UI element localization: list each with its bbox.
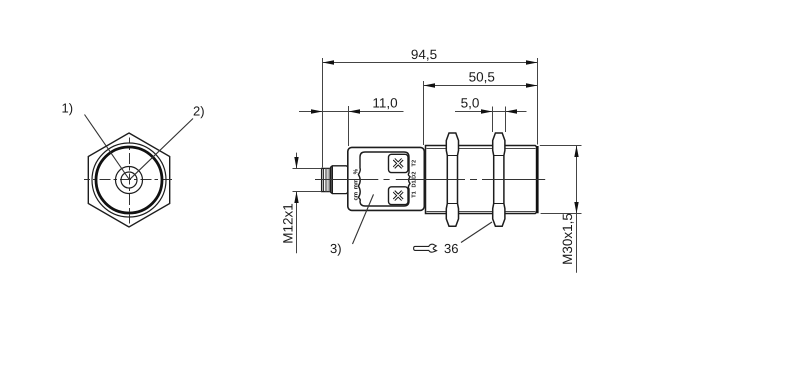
- horizontal centerline: [84, 179, 175, 181]
- wrench icon: [414, 244, 437, 252]
- svg-text:2): 2): [193, 104, 205, 119]
- outer circle (body diameter): [92, 143, 166, 217]
- arrow 94,5 right: [526, 60, 538, 64]
- centerline side view: [315, 179, 545, 181]
- threaded cylinder body M30: [426, 146, 538, 214]
- dim line 94,5: [323, 62, 538, 64]
- M30x1,5 ext line bottom: [541, 213, 582, 215]
- M12x1 dim line top segment: [296, 153, 298, 169]
- svg-text:%: %: [352, 168, 359, 174]
- svg-text:11,0: 11,0: [372, 96, 397, 111]
- housing box: [348, 147, 425, 210]
- ext line 11,0 right: [348, 106, 350, 146]
- connector thread hatch: [322, 168, 324, 191]
- connector thread hatch lines: [325, 168, 329, 191]
- leader line 1): [85, 115, 130, 180]
- M30x1,5 arrow top (pointing up): [574, 146, 578, 158]
- svg-text:1): 1): [62, 101, 74, 116]
- svg-text:50,5: 50,5: [469, 70, 495, 85]
- arrow 11,0 right (outside): [349, 109, 361, 113]
- ext line 94,5 left: [322, 58, 324, 168]
- arrow 50,5 right: [526, 83, 538, 87]
- M30x1,5 arrow bottom (pointing down): [574, 202, 578, 214]
- X mark bottom button: [394, 191, 402, 199]
- ext line 94,5 right / 50,5 right: [537, 58, 539, 145]
- dim line 5,0: [455, 111, 527, 113]
- inner circle: [121, 172, 137, 188]
- middle circle: [116, 167, 143, 194]
- X mark top button: [394, 159, 402, 167]
- connector collar step line: [331, 166, 333, 194]
- svg-text:cm: cm: [353, 192, 359, 201]
- svg-text:94,5: 94,5: [411, 47, 437, 62]
- svg-text:5,0: 5,0: [461, 96, 480, 111]
- M12x1 ext line bottom: [293, 191, 322, 193]
- lock nut 1 facet bars: [447, 156, 457, 204]
- M30x1,5 dim line: [576, 146, 578, 273]
- ext line 5,0 left: [492, 107, 494, 133]
- svg-text:T1: T1: [412, 191, 418, 198]
- button T1 (bottom): [389, 187, 409, 205]
- lock nut 1: [446, 133, 458, 226]
- M30x1,5 ext line top: [540, 145, 582, 147]
- thread root line bottom: [427, 211, 536, 213]
- svg-text:M30x1,5: M30x1,5: [560, 213, 575, 265]
- vertical centerline: [129, 138, 131, 224]
- sensing face thick edge: [536, 146, 539, 213]
- leader line 2): [129, 119, 193, 180]
- lock nut 2 facet bars: [494, 156, 504, 204]
- arrow 50,5 left: [424, 83, 436, 87]
- ext line 5,0 right: [505, 107, 507, 133]
- M12x1 dim line bottom segment: [296, 192, 298, 254]
- thick ring (transducer face): [96, 147, 162, 213]
- button T2 (top): [389, 154, 409, 172]
- svg-text:mm: mm: [353, 179, 359, 190]
- M12x1 arrow top (pointing down): [294, 157, 298, 169]
- arrow 5,0 right (outside): [506, 109, 518, 113]
- thread root line top: [427, 148, 536, 150]
- arrow 5,0 left (outside): [481, 109, 493, 113]
- hexagon nut outline: [88, 133, 169, 227]
- rubber panel with scalloped edges: [358, 152, 410, 206]
- dim line 11,0: [299, 111, 404, 113]
- M12x1 ext line top: [293, 168, 322, 170]
- leader line 36 to nut: [461, 222, 492, 243]
- M12 connector tip: [322, 168, 331, 191]
- arrow 94,5 left: [323, 60, 335, 64]
- svg-text:T2: T2: [412, 160, 418, 167]
- lock nut 2: [493, 133, 505, 226]
- M12x1 arrow bottom (pointing up): [294, 192, 298, 204]
- arrow 11,0 left (outside): [311, 109, 323, 113]
- svg-text:36: 36: [444, 241, 458, 256]
- svg-text:M12x1: M12x1: [281, 203, 296, 244]
- leader line 3): [353, 194, 374, 244]
- dim line 50,5: [424, 85, 538, 87]
- ext line 50,5 left: [423, 81, 425, 145]
- svg-text:3): 3): [330, 241, 342, 256]
- connector collar: [331, 166, 348, 194]
